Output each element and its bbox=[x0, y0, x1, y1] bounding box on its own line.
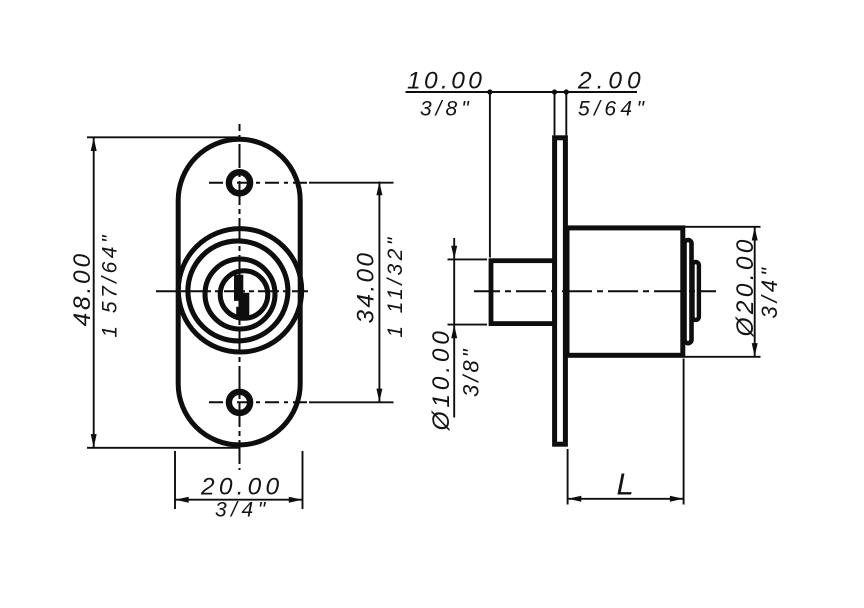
dim dia10 arrow up bbox=[451, 325, 457, 338]
cam ring 2 bbox=[693, 262, 699, 320]
svg-text:20.00: 20.00 bbox=[200, 474, 283, 501]
bottom hole extension line bbox=[309, 401, 394, 403]
plate left extension line bbox=[554, 92, 556, 135]
dim dia20 bottom extension line bbox=[685, 356, 761, 358]
right view centerline bbox=[474, 290, 716, 292]
bottom mounting hole bbox=[229, 392, 250, 413]
svg-text:2.00: 2.00 bbox=[577, 67, 646, 94]
plunger end extension line bbox=[489, 92, 491, 258]
dim dia20 dimension line bbox=[754, 227, 756, 357]
dim L dimension line bbox=[568, 498, 684, 500]
dim 20.00 dimension line bbox=[175, 499, 303, 501]
dim dia10 arrow down bbox=[451, 246, 457, 259]
dim dia10 dimension line bbox=[453, 238, 455, 418]
svg-text:5/64": 5/64" bbox=[578, 98, 648, 121]
cam ring 1 bbox=[685, 240, 692, 343]
dim 48.00 dimension line bbox=[93, 137, 95, 448]
plug circle C4 bbox=[220, 271, 268, 319]
top hole extension line bbox=[309, 182, 394, 184]
dim 20.00 left extension line bbox=[174, 451, 176, 509]
plate right extension line bbox=[565, 92, 567, 135]
dim dia10 top extension line bbox=[448, 258, 488, 260]
top mounting hole bbox=[229, 172, 250, 193]
cylinder face circle C3 bbox=[205, 259, 275, 329]
dim 48.00 top extension line bbox=[87, 136, 240, 138]
dim 34.00 dimension line bbox=[378, 182, 380, 403]
horizontal centerline of flange bbox=[156, 290, 308, 292]
svg-text:L: L bbox=[617, 467, 634, 502]
keyway bbox=[234, 275, 249, 320]
dim dia20 arrow down bbox=[752, 343, 758, 356]
bottom hole centerline bbox=[209, 401, 309, 403]
svg-text:3/4": 3/4" bbox=[757, 264, 782, 318]
dim 48.00 arrow up bbox=[91, 138, 97, 151]
svg-text:1 57/64": 1 57/64" bbox=[99, 232, 122, 338]
dim 20.00 arrow right bbox=[289, 497, 302, 503]
svg-text:1 11/32": 1 11/32" bbox=[384, 234, 407, 337]
svg-text:3/4": 3/4" bbox=[215, 498, 270, 521]
svg-text:34.00: 34.00 bbox=[353, 251, 380, 324]
svg-text:10.00: 10.00 bbox=[407, 67, 485, 94]
dim L left extension line bbox=[567, 449, 569, 505]
dim 48.00 arrow down bbox=[91, 434, 97, 447]
top hole centerline bbox=[209, 182, 309, 184]
right view: mounting plate (side) bbox=[555, 138, 566, 444]
svg-text:Ø10.00: Ø10.00 bbox=[428, 327, 455, 431]
dim L arrow right bbox=[670, 496, 683, 502]
svg-text:Ø20.00: Ø20.00 bbox=[732, 236, 759, 337]
svg-text:3/8": 3/8" bbox=[459, 347, 484, 397]
dim 20.00 arrow left bbox=[175, 497, 188, 503]
dim 34.00 arrow up bbox=[376, 182, 382, 195]
dim dia20 top extension line bbox=[685, 226, 761, 228]
svg-text:48.00: 48.00 bbox=[69, 251, 96, 326]
cylinder face circle C1 bbox=[178, 229, 301, 352]
dim 48.00 bottom extension line bbox=[87, 447, 240, 449]
lock body (side) bbox=[567, 228, 683, 355]
top dim dot B bbox=[552, 89, 557, 94]
svg-text:3/8": 3/8" bbox=[420, 98, 473, 121]
top dim dot C bbox=[564, 89, 569, 94]
top dim dot A bbox=[487, 89, 492, 94]
dim L arrow left bbox=[568, 496, 581, 502]
top dimension line bbox=[406, 91, 638, 93]
dim L right extension line bbox=[683, 359, 685, 505]
vertical centerline of flange bbox=[239, 124, 241, 470]
dim dia20 arrow up bbox=[752, 227, 758, 240]
dim 20.00 right extension line bbox=[302, 451, 304, 509]
plunger (side) bbox=[491, 261, 555, 324]
cylinder face circle C2 bbox=[188, 241, 288, 341]
left view: oval flange outline bbox=[178, 139, 300, 445]
dim dia10 bottom extension line bbox=[448, 324, 488, 326]
dim 34.00 arrow down bbox=[376, 389, 382, 402]
